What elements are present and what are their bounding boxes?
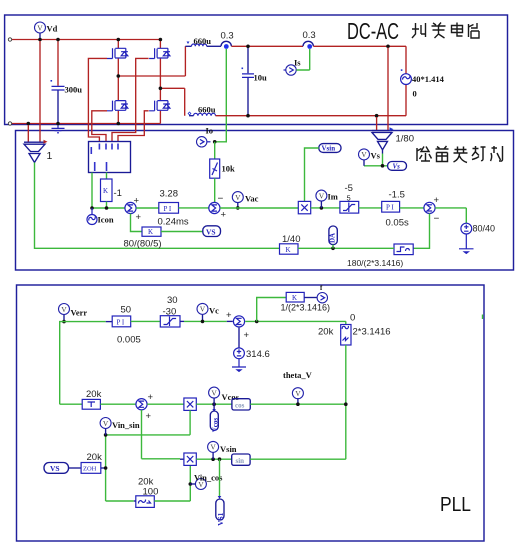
svg-text:VS: VS <box>206 227 216 236</box>
svg-text:100: 100 <box>143 487 159 498</box>
svg-text:30: 30 <box>167 295 178 306</box>
svg-text:5: 5 <box>347 194 351 203</box>
svg-text:+: + <box>146 411 152 422</box>
svg-text:+: + <box>221 210 227 221</box>
svg-text:20k: 20k <box>86 389 102 400</box>
svg-text:Vs: Vs <box>371 151 381 161</box>
svg-text:-5: -5 <box>345 183 353 194</box>
svg-text:Io: Io <box>206 126 214 136</box>
svg-text:0.005: 0.005 <box>117 335 141 346</box>
svg-text:0.3: 0.3 <box>303 30 316 41</box>
svg-text:DC-AC: DC-AC <box>347 18 399 44</box>
svg-text:PLL: PLL <box>440 494 471 516</box>
svg-text:VS: VS <box>50 464 60 473</box>
svg-text:1/40: 1/40 <box>282 234 301 245</box>
svg-text:0: 0 <box>413 89 417 99</box>
svg-text:Vin_sin: Vin_sin <box>112 420 140 430</box>
svg-text:0: 0 <box>350 313 355 324</box>
svg-text:40*1.414: 40*1.414 <box>412 74 445 84</box>
svg-text:Im: Im <box>328 192 338 202</box>
svg-text:Vsin: Vsin <box>220 444 237 454</box>
svg-text:theta_V: theta_V <box>283 370 313 380</box>
svg-text:300u: 300u <box>65 85 83 95</box>
svg-text:+: + <box>226 310 232 321</box>
svg-text:80/40: 80/40 <box>473 224 496 234</box>
svg-text:2*3.1416: 2*3.1416 <box>353 327 391 338</box>
svg-text:10u: 10u <box>254 73 268 83</box>
svg-text:3.28: 3.28 <box>160 189 179 200</box>
svg-text:Vac: Vac <box>245 194 259 204</box>
svg-text:P I: P I <box>164 205 172 213</box>
svg-text:-30: -30 <box>163 307 177 318</box>
svg-text:Verr: Verr <box>71 308 88 318</box>
svg-text:P I: P I <box>386 204 394 212</box>
svg-text:-1.5: -1.5 <box>389 190 405 201</box>
svg-text:+: + <box>134 196 140 207</box>
svg-text:180/(2*3.1416): 180/(2*3.1416) <box>347 258 403 268</box>
svg-text:Vs: Vs <box>393 163 401 171</box>
svg-text:K: K <box>286 246 291 254</box>
svg-text:K: K <box>103 187 108 195</box>
svg-text:Is: Is <box>294 58 301 68</box>
svg-text:0.24ms: 0.24ms <box>158 217 189 228</box>
svg-text:660u: 660u <box>198 105 216 115</box>
svg-text:ZOH: ZOH <box>83 466 97 473</box>
svg-text:VS1: VS1 <box>216 512 225 526</box>
svg-text:314.6: 314.6 <box>246 349 270 360</box>
svg-text:DA: DA <box>329 233 337 243</box>
svg-text:Vc: Vc <box>209 306 219 316</box>
svg-text:sin: sin <box>236 457 245 465</box>
svg-text:cos: cos <box>235 402 245 410</box>
svg-text:K: K <box>148 228 153 236</box>
svg-text:+: + <box>148 392 154 403</box>
svg-text:1/(2*3.1416): 1/(2*3.1416) <box>281 303 331 313</box>
svg-text:+: + <box>434 195 440 206</box>
svg-text:0.05s: 0.05s <box>386 218 409 229</box>
svg-text:Vsin: Vsin <box>322 145 336 153</box>
svg-text:K: K <box>292 294 297 302</box>
svg-text:+: + <box>136 212 142 223</box>
svg-text:1/80: 1/80 <box>396 134 415 145</box>
svg-text:0.3: 0.3 <box>221 31 234 42</box>
svg-text:10k: 10k <box>222 164 236 174</box>
svg-text:1: 1 <box>47 150 53 162</box>
svg-text:660u: 660u <box>194 36 212 46</box>
svg-text:50: 50 <box>121 305 132 316</box>
svg-text:-1: -1 <box>114 188 122 199</box>
svg-text:−: − <box>434 214 440 225</box>
svg-text:Icon: Icon <box>98 215 114 225</box>
svg-text:P I: P I <box>117 318 125 326</box>
svg-text:+: + <box>244 330 250 341</box>
svg-text:20k: 20k <box>87 452 103 463</box>
svg-text:80/(80/5): 80/(80/5) <box>124 239 162 250</box>
svg-text:20k: 20k <box>318 327 334 338</box>
svg-text:Vcos: Vcos <box>211 418 219 433</box>
svg-text:Vcos: Vcos <box>222 392 240 402</box>
svg-text:Vd: Vd <box>47 24 58 34</box>
svg-text:−: − <box>218 194 224 205</box>
